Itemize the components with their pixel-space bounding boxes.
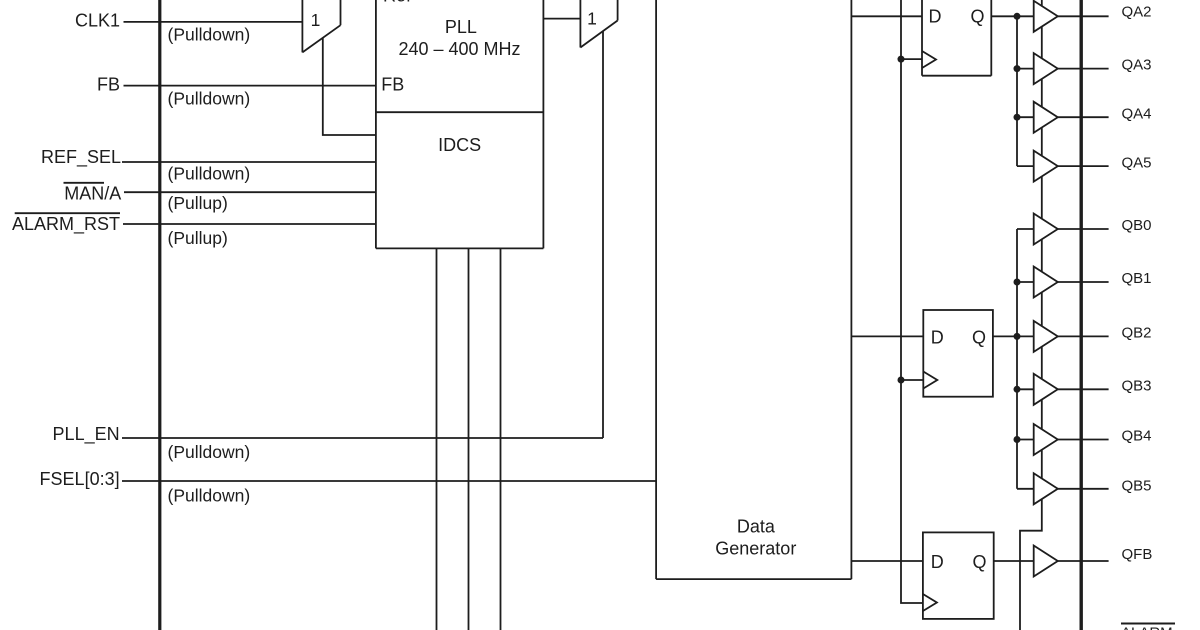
wire QA3 output	[1058, 68, 1109, 70]
node QA2 label	[1122, 4, 1152, 21]
svg-text:Ref: Ref	[383, 0, 412, 6]
wire QA2 output	[1058, 15, 1109, 17]
wire CLK1 to mux S1 input	[124, 21, 303, 23]
svg-text:ALARM: ALARM	[1121, 625, 1173, 630]
pin clock U5	[923, 372, 937, 389]
svg-text:FB: FB	[381, 75, 404, 95]
wire bank B distribution vertical	[1016, 229, 1018, 489]
buffer QA4	[1034, 102, 1058, 133]
svg-text:Q: Q	[972, 328, 986, 348]
svg-text:PLL: PLL	[445, 17, 477, 37]
wire FB input to PLL	[124, 85, 376, 87]
svg-text:(Pulldown): (Pulldown)	[168, 89, 251, 109]
buffer QB3	[1034, 374, 1058, 405]
flip-flop U6 feedback divider	[923, 532, 994, 619]
svg-text:1: 1	[311, 10, 321, 30]
wire bank A distribution vertical	[1016, 16, 1018, 166]
junction QB4	[1014, 436, 1021, 443]
buffer QA3	[1034, 53, 1058, 84]
wire REF_SEL to IDCS	[122, 161, 376, 163]
wire IDCS output 2	[468, 248, 470, 630]
block U3 Data Generator	[656, 0, 851, 579]
junction QA4	[1014, 114, 1021, 121]
node QFB label	[1122, 546, 1153, 563]
pin clock U4	[922, 51, 936, 68]
wire QFB output	[1058, 560, 1109, 562]
svg-text:D: D	[929, 7, 942, 27]
buffer QB2	[1034, 321, 1058, 352]
svg-text:240 – 400 MHz: 240 – 400 MHz	[398, 39, 520, 59]
wire QB3 output	[1058, 388, 1109, 390]
buffer QFB	[1034, 546, 1058, 577]
mux S2 PLL bypass select	[580, 0, 617, 48]
wire QB1 output	[1058, 281, 1109, 283]
note pullup MAN/A	[168, 193, 228, 213]
junction QB2	[1014, 333, 1021, 340]
buffer QB1	[1034, 267, 1058, 298]
buffer QB0	[1034, 214, 1058, 245]
node QA4 label	[1122, 106, 1152, 123]
node PLL_EN label	[53, 424, 120, 445]
wire data generator to U5 D	[851, 335, 923, 337]
svg-text:D: D	[931, 328, 944, 348]
wire QA4 output	[1058, 116, 1109, 118]
wire QB3 tap	[1017, 388, 1034, 390]
svg-text:QB4: QB4	[1122, 428, 1152, 445]
svg-text:QA2: QA2	[1122, 4, 1152, 21]
wire PLL output to mux S2	[543, 18, 580, 20]
note pullup ALARM_RST	[168, 228, 228, 248]
wire clock tap to U4	[901, 58, 922, 60]
svg-text:FSEL[0:3]: FSEL[0:3]	[40, 469, 120, 489]
node FSEL[0:3] label	[40, 469, 120, 489]
left device boundary thick line	[158, 0, 161, 630]
flip-flop U4 bank A divider	[922, 0, 991, 76]
svg-text:(Pullup): (Pullup)	[168, 228, 228, 248]
node QA5 label	[1122, 154, 1152, 171]
block U2 IDCS	[376, 135, 544, 248]
node REF_SEL label	[41, 147, 121, 168]
buffer QB4	[1034, 424, 1058, 455]
wire MAN/A to IDCS	[124, 191, 376, 193]
wire QB4 output	[1058, 439, 1109, 441]
node QB2 label	[1122, 325, 1152, 342]
node QA3 label	[1122, 57, 1152, 74]
svg-text:MAN/A: MAN/A	[64, 183, 121, 203]
wire mux S2 select from PLL_EN	[602, 31, 604, 438]
wire clock distribution net	[901, 0, 923, 603]
note pulldown FSEL	[168, 486, 251, 506]
node FB label	[97, 75, 120, 95]
buffer QA5	[1034, 151, 1058, 182]
svg-text:Generator: Generator	[715, 539, 796, 559]
note pulldown REF_SEL	[168, 164, 251, 184]
pin clock U6	[923, 594, 937, 611]
note pulldown CLK1	[168, 25, 251, 45]
junction QA2	[1014, 13, 1021, 20]
wire QA5 tap	[1017, 165, 1034, 167]
svg-text:QB3: QB3	[1122, 378, 1152, 395]
wire PLL_EN to mux S2 select	[122, 437, 603, 439]
node QB3 label	[1122, 378, 1152, 395]
wire U5 Q to bank B distribution	[993, 335, 1034, 337]
node QB5 label	[1122, 478, 1152, 495]
wire QB0 output	[1058, 228, 1109, 230]
svg-text:(Pulldown): (Pulldown)	[168, 164, 251, 184]
svg-text:QFB: QFB	[1122, 546, 1153, 563]
svg-text:QB2: QB2	[1122, 325, 1152, 342]
svg-text:Data: Data	[737, 517, 776, 537]
wire FSEL to data generator	[122, 480, 656, 482]
wire alarm feedback line behind buffers	[1020, 0, 1042, 630]
buffer QB5	[1034, 473, 1058, 504]
svg-text:(Pulldown): (Pulldown)	[168, 25, 251, 45]
svg-text:(Pulldown): (Pulldown)	[168, 442, 251, 462]
wire QB5 output	[1058, 488, 1109, 490]
node CLK1 label	[75, 11, 120, 31]
junction QB1	[1014, 279, 1021, 286]
svg-text:(Pullup): (Pullup)	[168, 193, 228, 213]
node QB0 label	[1122, 217, 1152, 234]
flip-flop U5 bank B divider	[923, 310, 993, 397]
node MAN/A label with overline on MAN	[64, 183, 121, 203]
node QB4 label	[1122, 428, 1152, 445]
wire QB1 tap	[1017, 281, 1034, 283]
junction QA3	[1014, 65, 1021, 72]
buffer QA2	[1034, 1, 1058, 32]
wire IDCS output 1	[436, 248, 438, 630]
right device boundary thick line	[1079, 0, 1082, 630]
node ALARM label with overline (cropped)	[1121, 624, 1175, 630]
block U1 PLL	[376, 0, 544, 248]
wire QA5 output	[1058, 165, 1109, 167]
svg-text:FB: FB	[97, 75, 120, 95]
node ALARM_RST label with overline	[12, 214, 120, 235]
svg-text:REF_SEL: REF_SEL	[41, 147, 121, 168]
wire QA4 tap	[1017, 116, 1034, 118]
wire data generator to U4 D	[851, 15, 922, 17]
junction clock at U5	[898, 377, 905, 384]
svg-text:QB1: QB1	[1122, 270, 1152, 287]
wire QB4 tap	[1017, 439, 1034, 441]
svg-text:QB0: QB0	[1122, 217, 1152, 234]
wire QB5 tap	[1017, 488, 1034, 490]
mux S1 input select (clock reference mux)	[302, 0, 340, 52]
wire IDCS output 3	[500, 248, 502, 630]
wire U4 Q to bank A distribution	[991, 15, 1033, 17]
wire QB2 output	[1058, 335, 1109, 337]
svg-text:Q: Q	[973, 552, 987, 572]
junction QB3	[1014, 386, 1021, 393]
svg-text:ALARM_RST: ALARM_RST	[12, 214, 120, 235]
note pulldown FB	[168, 89, 251, 109]
junction clock at U4	[898, 56, 905, 63]
wire QA3 tap	[1017, 68, 1034, 70]
svg-text:QA3: QA3	[1122, 57, 1152, 74]
svg-text:QB5: QB5	[1122, 478, 1152, 495]
wire data generator to U6 D	[851, 560, 923, 562]
wire mux S1 select from IDCS	[323, 38, 376, 135]
wire ALARM_RST to IDCS	[123, 223, 376, 225]
wire clock tap to U5	[901, 379, 923, 381]
wire QB0 tap	[1017, 228, 1034, 230]
svg-text:D: D	[931, 552, 944, 572]
svg-text:CLK1: CLK1	[75, 11, 120, 31]
wire U6 Q to QFB buffer	[994, 560, 1034, 562]
svg-text:Q: Q	[971, 7, 985, 27]
svg-text:(Pulldown): (Pulldown)	[168, 486, 251, 506]
svg-text:IDCS: IDCS	[438, 135, 481, 155]
svg-text:QA5: QA5	[1122, 154, 1152, 171]
note pulldown PLL_EN	[168, 442, 251, 462]
svg-text:1: 1	[587, 9, 597, 29]
svg-text:PLL_EN: PLL_EN	[53, 424, 120, 445]
svg-text:QA4: QA4	[1122, 106, 1152, 123]
node QB1 label	[1122, 270, 1152, 287]
